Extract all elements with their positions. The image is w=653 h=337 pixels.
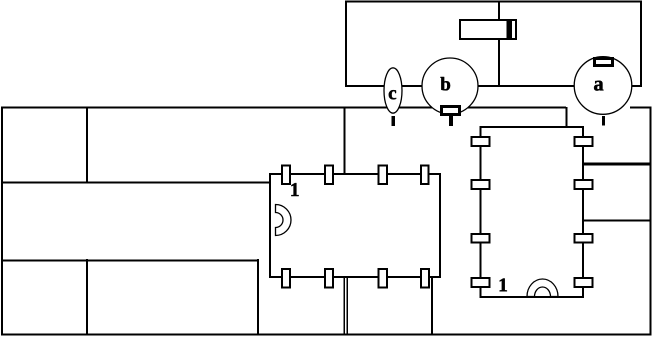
left room door column [276,205,292,236]
bottom outer wall [1,334,652,336]
room 1 left outline [270,174,440,277]
left room bottom pillar 3 [379,269,388,288]
ellipse c [384,68,402,113]
left room bottom pillar 4 [421,269,429,288]
row divider wall 1 [2,182,270,184]
right room left pillar 4 [472,278,490,287]
tick below ellipse c [392,116,395,126]
left room top pillar 3 [379,166,388,185]
top building divider wall [498,2,500,86]
left room top pillar 1 [282,166,290,185]
partition wall x=87 top row [86,107,88,183]
right room door arch [527,279,558,297]
right room right pillar 1 [575,137,593,146]
label 1 left room [291,183,298,196]
right outer wall [630,108,651,335]
room 1 right outline [481,127,584,297]
long wall y=107 [2,107,566,109]
right wing wall thin [583,220,651,222]
label b [441,77,451,90]
connector wall x=566 [566,107,568,128]
left outer wall [1,107,3,336]
left room bottom pillar 1 [282,269,290,288]
label a [594,81,603,91]
row divider wall 2 [2,260,258,262]
partition wall x=432 bottom [431,277,433,334]
top building outline [346,2,641,87]
left room bottom pillar 2 [325,269,333,288]
right room left pillar 1 [472,137,490,146]
right room right pillar 3 [575,234,593,243]
label c [389,90,396,99]
symbol above circle a [595,59,613,66]
right room right pillar 2 [575,180,593,189]
circle a [574,57,632,115]
right room left pillar 2 [472,180,490,189]
tick below circle a [602,116,605,126]
symbol bar in top building [460,20,516,40]
partition wall x=87 bottom row [86,259,88,334]
left room top pillar 2 [325,166,333,185]
symbol under circle b [442,107,460,127]
right room right pillar 4 [575,278,593,287]
right room left pillar 3 [472,234,490,243]
left room top pillar 4 [421,166,429,185]
cavity wall line a below room [343,277,345,334]
partition wall x=258 bottom row [257,259,259,334]
label 1 right room [500,278,507,291]
cavity wall line b below room [346,277,348,334]
partition wall x=344 upper [344,107,346,175]
circle b [422,58,478,114]
right wing wall thick [583,162,651,165]
